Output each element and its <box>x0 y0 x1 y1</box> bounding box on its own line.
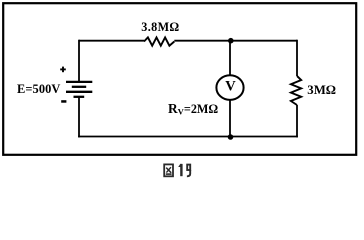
svg-text:3.8MΩ: 3.8MΩ <box>141 20 179 34</box>
wire top-left segment <box>79 40 144 42</box>
voltmeter V meter circle <box>216 75 243 100</box>
wire voltmeter bottom lead <box>229 100 231 137</box>
battery - polarity mark <box>61 100 66 103</box>
node B junction dot bottom <box>228 134 234 140</box>
wire right upper <box>296 40 298 76</box>
svg-text:V: V <box>225 79 236 95</box>
svg-text:E=500V: E=500V <box>17 82 60 96</box>
svg-text:RV=2MΩ: RV=2MΩ <box>168 101 218 117</box>
wire bottom segment <box>78 136 298 138</box>
caption digit 9 <box>187 165 190 177</box>
resistor R1 3.8M ohm <box>144 37 174 45</box>
battery + polarity mark <box>60 67 66 73</box>
wire left lower (battery bottom lead) <box>78 97 80 138</box>
wire left upper (battery top lead) <box>78 40 80 82</box>
wire voltmeter top lead <box>229 41 231 76</box>
caption digit 1 <box>178 164 182 176</box>
wire right lower <box>296 105 298 137</box>
node A junction dot top <box>228 38 234 44</box>
battery E <box>66 82 92 97</box>
resistor R2 3M ohm vertical <box>291 76 301 105</box>
svg-text:3MΩ: 3MΩ <box>307 83 336 97</box>
caption figure label: character tu (figure) <box>164 164 173 176</box>
wire top-right segment <box>174 40 297 42</box>
